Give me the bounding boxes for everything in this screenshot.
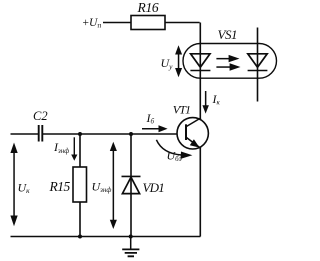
svg-text:VD1: VD1 <box>143 180 165 195</box>
svg-text:VT1: VT1 <box>173 103 190 117</box>
svg-text:C2: C2 <box>33 109 48 123</box>
svg-text:VS1: VS1 <box>218 27 237 42</box>
svg-text:R16: R16 <box>137 0 159 15</box>
svg-text:R15: R15 <box>49 179 71 194</box>
